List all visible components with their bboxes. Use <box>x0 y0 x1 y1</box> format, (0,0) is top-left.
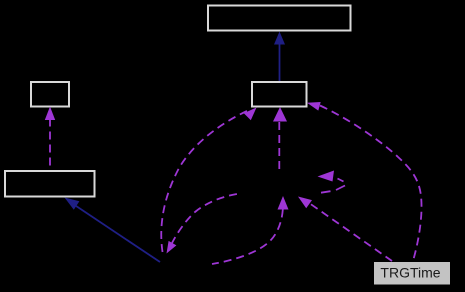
node small left box <box>31 82 69 107</box>
node big left box <box>5 171 95 197</box>
wire: purple dashed edge big left box to small left box <box>45 107 55 171</box>
svg-text:TRGTime: TRGTime <box>380 265 440 281</box>
wire: purple dashed C-curve hidden node 2 to center box bottom-left <box>161 108 256 256</box>
wire: purple dashed vertical hidden node 1 to center box bottom <box>273 107 287 170</box>
wire: purple dashed hook into hidden node 1 right edge <box>318 171 346 193</box>
node TRGSignalVector (center box) <box>252 82 307 107</box>
node TRGTime (current node, gray) <box>374 262 451 286</box>
wire: blue inheritance edge hidden node to big left box <box>65 198 161 263</box>
wire: purple dashed straight edge TRGTime to hidden node 1 bottom <box>298 197 392 262</box>
wire: purple dashed big right curve TRGTime to center box bottom-right <box>307 102 422 261</box>
wire: purple dashed edge hidden node 2 up to hidden node 1 bottom <box>212 196 289 264</box>
wire: purple dashed edge hidden node 1 down to hidden node 2 <box>167 194 241 254</box>
wire: blue inheritance edge center box to top box <box>274 32 285 82</box>
node TRGSignal (top box) <box>208 6 351 31</box>
